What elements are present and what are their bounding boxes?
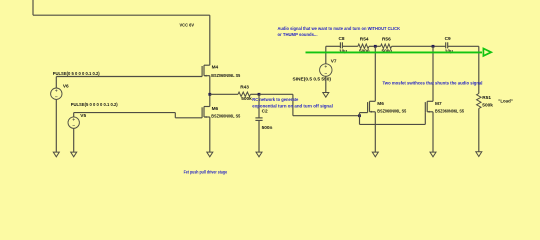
svg-text:10µ: 10µ bbox=[445, 48, 453, 54]
wire VCC top-left vertical bbox=[32, 0, 34, 15]
svg-text:V6: V6 bbox=[63, 84, 69, 90]
svg-text:5000: 5000 bbox=[359, 48, 370, 54]
annotation green audio signal arrow bbox=[306, 49, 492, 56]
node M7 drain junction bbox=[432, 45, 435, 48]
wire gate net horizontal bbox=[293, 115, 360, 117]
node gate net junction bbox=[358, 114, 361, 117]
wire R51 to ground bbox=[478, 109, 480, 152]
wire node down to C2 bbox=[258, 94, 260, 118]
svg-text:PULSE(5 0 0 0 0 0.1 0.2): PULSE(5 0 0 0 0 0.1 0.2) bbox=[71, 102, 118, 108]
ground V6 bbox=[53, 152, 59, 157]
wire jog down bbox=[174, 113, 176, 118]
wire jog to M6 gate bbox=[175, 117, 202, 119]
audio wire from V7 to C8 bbox=[326, 45, 341, 47]
svg-text:RC network to generate: RC network to generate bbox=[252, 97, 298, 102]
wire M7 drain bbox=[432, 46, 434, 101]
wire V5 gate drive horizontal bbox=[74, 112, 176, 114]
wire VCC down to M4 drain bbox=[209, 15, 211, 65]
wire V5 up bbox=[73, 113, 75, 117]
transistor M6 shunt bbox=[368, 101, 376, 113]
wire V6 minus to ground bbox=[55, 99, 57, 152]
svg-text:VCC 6V: VCC 6V bbox=[180, 23, 195, 29]
wire V6 gate drive to M4 gate bbox=[56, 76, 202, 78]
ground V5 bbox=[71, 152, 77, 157]
capacitor C9 bbox=[446, 42, 448, 48]
svg-text:PULSE(0 5 0 0 0 0.1 0.2): PULSE(0 5 0 0 0 0.1 0.2) bbox=[53, 71, 100, 77]
svg-text:10µ: 10µ bbox=[339, 48, 347, 54]
comment RC network text bbox=[252, 97, 332, 109]
wire M7 source to ground bbox=[432, 112, 434, 152]
svg-text:M7: M7 bbox=[435, 101, 442, 107]
svg-text:R51: R51 bbox=[482, 95, 491, 101]
svg-text:M4: M4 bbox=[212, 64, 219, 70]
resistor R54 bbox=[358, 44, 369, 48]
svg-text:exponential turn on and turn o: exponential turn on and turn off signal bbox=[252, 103, 332, 108]
sine source V7 bbox=[320, 64, 332, 76]
wire M4 source to M6 drain bbox=[209, 76, 211, 107]
wire down to gate net bbox=[292, 94, 294, 115]
node RC junction bbox=[258, 93, 261, 96]
svg-text:M6: M6 bbox=[377, 101, 384, 107]
wire C9 to load corner bbox=[448, 45, 479, 47]
transistor M6 (driver) bbox=[202, 107, 210, 119]
wire V5 minus to ground bbox=[73, 128, 75, 152]
wire V6 plus lead bbox=[55, 77, 57, 89]
resistor R56 bbox=[381, 44, 392, 48]
ground M6 shunt bbox=[372, 152, 378, 157]
node M6 shunt drain junction bbox=[374, 45, 377, 48]
svg-text:R56: R56 bbox=[382, 37, 391, 43]
svg-text:"Load": "Load" bbox=[498, 99, 513, 105]
svg-text:M6: M6 bbox=[212, 106, 219, 112]
svg-text:C9: C9 bbox=[445, 36, 451, 42]
svg-text:Two mosfet swithces that shunt: Two mosfet swithces that shunts the audi… bbox=[383, 81, 483, 86]
ground C2 bbox=[256, 152, 262, 157]
svg-text:Fet push pull driver stage: Fet push pull driver stage bbox=[184, 170, 228, 175]
wire R43 to node bbox=[251, 93, 260, 95]
svg-text:BSZ060N06L S5: BSZ060N06L S5 bbox=[377, 108, 406, 114]
ground V7 bbox=[323, 93, 329, 98]
svg-text:500n: 500n bbox=[262, 125, 273, 131]
svg-text:BSZ060N06L S5: BSZ060N06L S5 bbox=[435, 108, 464, 114]
ground M7 bbox=[430, 152, 436, 157]
wire M6 shunt source to ground bbox=[374, 112, 376, 152]
svg-text:C8: C8 bbox=[339, 36, 345, 42]
ground M6 driver bbox=[207, 152, 213, 157]
wire C8 to R54 bbox=[342, 45, 358, 47]
capacitor C8 bbox=[340, 42, 342, 48]
wire V7 to ground bbox=[325, 76, 327, 92]
transistor M7 bbox=[425, 101, 433, 113]
wire C2 to ground bbox=[258, 120, 260, 152]
wire R54 to R56 bbox=[369, 45, 381, 47]
wire output to R43 bbox=[210, 93, 238, 95]
node push-pull output junction bbox=[208, 93, 211, 96]
svg-text:500k: 500k bbox=[241, 96, 252, 102]
wire loop down bbox=[359, 116, 361, 125]
wire loop up to M7 gate bbox=[424, 113, 426, 125]
wire M6 source to ground bbox=[209, 117, 211, 152]
pulse source V6 bbox=[51, 88, 62, 99]
svg-text:R54: R54 bbox=[360, 37, 369, 43]
svg-text:or THUMP sounds...: or THUMP sounds... bbox=[278, 32, 318, 37]
svg-text:R43: R43 bbox=[240, 85, 249, 91]
svg-text:500k: 500k bbox=[482, 102, 493, 108]
capacitor C2 bbox=[255, 118, 262, 121]
wire down to R51 bbox=[478, 46, 480, 93]
resistor R51 load bbox=[477, 94, 481, 109]
wire V7 to audio line bbox=[325, 46, 327, 64]
comment audio signal text bbox=[278, 26, 401, 37]
wire M6 shunt drain bbox=[374, 46, 376, 101]
svg-text:C2: C2 bbox=[262, 109, 268, 115]
svg-text:Audio signal that we want to m: Audio signal that we want to mute and tu… bbox=[278, 26, 401, 31]
wire R56 to C9 bbox=[392, 45, 446, 47]
wire to M6 shunt gate bbox=[360, 112, 368, 114]
ground R51 bbox=[476, 152, 482, 157]
wire loop bottom bbox=[360, 123, 426, 125]
pulse source V5 bbox=[68, 117, 79, 128]
svg-text:V7: V7 bbox=[331, 59, 337, 65]
wire jog up to M6 shunt gate bbox=[359, 113, 361, 116]
transistor M4 bbox=[202, 65, 210, 77]
wire VCC top horizontal bbox=[33, 14, 210, 16]
wire node right bbox=[259, 93, 293, 95]
resistor R43 bbox=[238, 92, 251, 96]
svg-text:V5: V5 bbox=[80, 113, 86, 119]
svg-text:BSZ060N06L S5: BSZ060N06L S5 bbox=[211, 73, 240, 79]
svg-text:BSZ060N06L S5: BSZ060N06L S5 bbox=[211, 113, 240, 119]
svg-text:5000: 5000 bbox=[382, 48, 393, 54]
